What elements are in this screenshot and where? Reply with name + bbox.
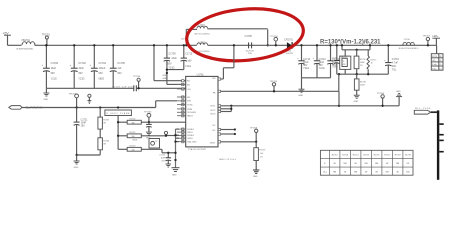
op-amp IC U1701 body [186,74,237,162]
test point TP1710 boxed [149,139,160,149]
resistor R1703 [118,146,175,153]
power flag LED+ [432,35,440,45]
table resistor options [320,150,413,175]
capacitor C1709 [164,44,178,69]
wire SW route [221,44,235,79]
capacitor C1708 series [245,35,288,55]
wire BL_PWR [22,101,177,109]
svg-text:R1715: R1715 [363,154,369,156]
svg-text:10k: 10k [132,150,135,152]
svg-text:R_VDD2_PLANE: R_VDD2_PLANE [106,112,130,115]
svg-text:R1716: R1716 [374,154,380,156]
node BL_PWR/_PWM [9,106,43,110]
svg-text:GND: GND [43,99,48,101]
svg-text:TL: TL [343,61,345,63]
svg-text:C1705: C1705 [117,62,125,65]
svg-text:0°: 0° [324,163,326,165]
svg-text:R1713: R1713 [342,154,348,156]
test point TP1708 [250,127,258,143]
svg-text:R1718: R1718 [395,154,401,156]
svg-text:GNDT: GNDT [210,142,216,144]
wire LED+ drop [436,45,438,53]
no-connect pins [221,128,236,135]
svg-text:R1717: R1717 [384,154,390,156]
test point TP1704 [133,76,141,89]
svg-text:Y21G: Y21G [303,67,309,70]
svg-text:TPA3113D2PWP: TPA3113D2PWP [188,148,207,151]
svg-text:100uF: 100uF [99,67,106,70]
svg-text:TAB_GND: TAB_GND [187,141,197,144]
ground [146,132,152,140]
capacitor C1712 [297,44,311,78]
svg-text:GND: GND [162,75,167,77]
svg-text:1k: 1k [371,62,373,64]
ground [172,168,180,177]
svg-text:R1718: R1718 [360,81,366,83]
svg-text:10uF: 10uF [171,57,177,60]
svg-text:10-1: 10-1 [323,172,327,174]
wire L1701 return [267,29,269,46]
svg-text:10k: 10k [132,136,135,138]
resistor R1706 [98,129,109,155]
wire OUT2 OUT3 merge [221,106,233,112]
svg-text:50V: 50V [167,62,172,65]
node BLL_LVDS pennant [414,108,438,114]
svg-text:100R: 100R [360,84,365,86]
svg-text:50V: 50V [117,72,122,75]
svg-text:R1702: R1702 [130,132,136,134]
svg-text:100R: 100R [360,62,365,64]
svg-text:PGND1: PGND1 [187,129,195,131]
svg-text:NM: NM [386,172,389,174]
ground [298,78,304,97]
capacitor C1715 [332,44,340,74]
capacitor C1707 series [112,85,186,91]
annotation red ellipse [184,4,305,65]
svg-text:PWM: PWM [187,109,192,111]
wire main rail mid [208,44,253,46]
svg-text:GND: GND [253,176,258,178]
svg-text:16V: 16V [187,59,192,62]
test point TP1702 [69,94,79,108]
resistor R1716 [354,50,365,74]
inductor L1702 [195,41,210,52]
resistor R1718 [354,74,365,95]
svg-text:OUT1: OUT1 [210,105,216,107]
power flag +5V [3,31,12,45]
svg-text:OUT3: OUT3 [210,113,216,115]
svg-text:50V: 50V [78,72,83,75]
resistor R1702 [117,131,177,141]
svg-text:NM: NM [344,163,347,165]
svg-text:R1719: R1719 [405,154,411,156]
wire cap pair bottom [166,61,184,85]
IC U1701 right pin names [210,78,217,145]
wire to IN2 [167,83,182,85]
svg-text:CR1701: CR1701 [284,39,293,41]
svg-text:GND: GND [396,91,401,93]
regulator VR1701 [340,50,351,74]
wire main rail [35,44,197,46]
test point TP1707 [423,36,431,47]
svg-text:R=130*(Vm-1.2)/6.231: R=130*(Vm-1.2)/6.231 [320,39,381,46]
svg-text:10k: 10k [260,153,263,155]
inductor L1704 [399,39,420,50]
diode CR1701 [284,39,436,55]
svg-text:R1720: R1720 [432,56,437,58]
svg-text:3.2: 3.2 [439,68,441,70]
capacitor C1706 [42,44,59,88]
table LED spec [431,54,443,71]
svg-text:10uF 16V: 10uF 16V [246,50,255,52]
svg-text:NM: NM [406,172,409,174]
svg-text:50V: 50V [51,72,56,75]
svg-text:R1714: R1714 [353,154,360,156]
svg-text:L1704: L1704 [404,39,411,41]
svg-text:1uF: 1uF [117,67,122,70]
test point TP1705 [144,112,152,124]
IC U1701 right pin boxes [218,78,220,143]
ground [354,95,360,103]
svg-text:R1716: R1716 [360,59,366,61]
svg-text:NM: NM [375,163,378,165]
svg-text:Vf typ: Vf typ [432,67,436,70]
svg-text:SW: SW [212,78,215,80]
wire main rail left [8,44,22,46]
svg-text:NM: NM [396,163,399,165]
svg-text:GND: GND [162,78,167,80]
svg-text:NM: NM [365,163,368,165]
svg-text:R1703: R1703 [130,146,136,148]
capacitor C1704 [90,44,107,88]
svg-text:Y21G: Y21G [78,77,84,80]
resistor R1704 [117,119,186,125]
svg-text:431: 431 [343,64,346,66]
node R_VDD2_PLANE [105,110,131,116]
svg-text:20: 20 [439,64,441,66]
svg-text:SOD123: SOD123 [286,53,293,55]
ground stub end [396,91,402,106]
wire VR sub-rail [341,44,371,51]
svg-text:R1712: R1712 [332,154,338,156]
svg-text:MLF2012DR60: MLF2012DR60 [195,33,210,35]
svg-text:GND: GND [298,95,303,97]
wire right cap bank bus [302,77,331,79]
test point TP1703A [88,94,92,103]
svg-text:GND: GND [354,101,359,103]
wire FB to OUT link [338,91,340,106]
svg-text:PGND2: PGND2 [187,135,195,137]
IC left pin stubs [177,84,186,141]
svg-text:R1717: R1717 [371,59,377,61]
svg-text:C1710: C1710 [185,52,193,55]
svg-text:TOL: TOL [392,68,397,71]
svg-text:R1719: R1719 [259,149,266,151]
svg-text:10uF: 10uF [51,67,57,70]
svg-text:VDDGEN: VDDGEN [187,112,196,114]
capacitor C1721 [159,152,171,167]
svg-text:10uF: 10uF [78,67,84,70]
capacitor C1710 [74,108,89,156]
test point TP1709 [270,81,278,93]
ground [74,155,80,169]
capacitor C1702 [70,44,87,88]
svg-text:C1708: C1708 [245,35,253,38]
resistor R1717 [367,50,376,74]
wire rail to IN1 [153,44,186,81]
svg-text:0805: 0805 [99,77,105,80]
svg-text:MAX-3214x4: MAX-3214x4 [219,158,236,161]
svg-text:TP1704: TP1704 [133,76,141,78]
wire ground bus left [46,87,133,89]
svg-text:BLM41PG600SN1L: BLM41PG600SN1L [399,48,420,50]
ground [43,88,49,101]
capacitor C1705 [110,44,126,88]
svg-text:C1715: C1715 [332,58,338,60]
svg-text:Y21G: Y21G [185,65,191,68]
wire gnd link [75,154,100,156]
svg-text:FAULT: FAULT [187,115,194,118]
inductor FB1701 [17,39,36,50]
capacitor C1718 [146,122,152,132]
svg-text:Y21G: Y21G [51,77,57,80]
svg-text:GND1: GND1 [187,132,193,134]
svg-text:GND: GND [172,175,177,177]
svg-text:GND: GND [74,167,79,169]
connector bar BLL [437,110,444,179]
capacitor C1714 [327,44,340,78]
test point TP1701 [42,34,51,46]
svg-text:Y21G: Y21G [319,67,325,70]
svg-text:OUT2: OUT2 [210,110,216,112]
inductor L1701 [186,24,267,36]
svg-text:16V: 16V [81,124,86,127]
svg-text:1%: 1% [260,157,263,159]
wire VR bottom bus [337,73,389,75]
svg-text:C1702: C1702 [78,62,86,65]
wire gnd vertical [174,129,179,167]
svg-text:R1706: R1706 [103,140,109,142]
svg-text:C1706: C1706 [51,62,59,65]
resistor R1707 [98,108,109,130]
IC U1701 left pin boxes [182,80,184,143]
svg-text:GND2: GND2 [187,138,193,140]
svg-text:R1704: R1704 [130,119,137,121]
svg-text:NM: NM [333,172,336,174]
svg-text:10k: 10k [132,122,135,124]
svg-text:C1721: C1721 [159,154,165,156]
test point TP1703 [270,36,278,46]
wire vdd2 vertical [117,116,119,150]
capacitor C1710A [181,44,193,68]
svg-text:C1707 1uF 16V: C1707 1uF 16V [112,87,133,89]
svg-text:0R03: 0R03 [133,140,138,142]
svg-text:C1704: C1704 [99,62,107,65]
svg-text:R1707: R1707 [103,120,109,122]
svg-text:1210: 1210 [248,53,252,55]
svg-text:BLM41PG600SN1L: BLM41PG600SN1L [17,48,34,50]
svg-text:NM: NM [354,172,357,174]
svg-text:C1709: C1709 [169,52,177,55]
test point TP1706 [377,93,385,107]
svg-text:1%: 1% [360,65,363,67]
svg-text:SYNC: SYNC [187,105,193,107]
ground [253,170,259,178]
IC U1701 left pin names [187,81,197,144]
svg-text:LDO: LDO [187,89,192,91]
resistor R1719 [254,142,266,170]
svg-text:50V: 50V [99,72,104,75]
node 10V branch [181,29,187,46]
svg-text:VR1701: VR1701 [341,57,348,59]
capacitor C1716 [384,44,399,74]
capacitor C1713 [313,44,327,78]
wire bottom right pin [221,141,257,143]
wire FB route [221,74,339,91]
wire OUT1 route [221,105,400,107]
